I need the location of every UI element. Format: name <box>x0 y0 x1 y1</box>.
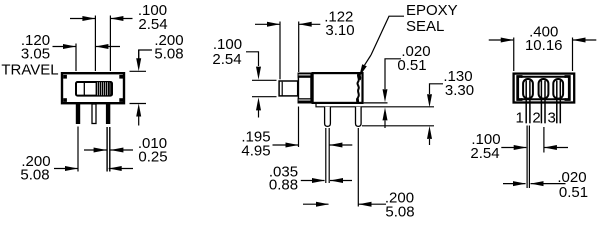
dimension .400 arrows <box>489 38 597 43</box>
knob top edge extension left <box>252 79 277 81</box>
actuator knob side <box>279 81 298 96</box>
terminal oval 3 <box>553 79 563 99</box>
pin 1 left (front) <box>76 104 80 124</box>
inner top wall line <box>521 76 566 78</box>
dimension .130 pin length leader and arrows <box>427 84 443 145</box>
dimension .035 pin thickness arrows <box>301 178 352 183</box>
pin 2 middle (front, outlined) <box>92 104 96 124</box>
svg-text:EPOXY: EPOXY <box>406 2 458 19</box>
svg-text:10.16: 10.16 <box>525 37 563 54</box>
corner square bottom-right <box>119 98 123 102</box>
pin 3 wire through body <box>556 81 558 124</box>
svg-text:5.08: 5.08 <box>154 46 183 63</box>
dimension .010 pin thickness <box>84 148 133 153</box>
svg-text:5.08: 5.08 <box>385 204 414 221</box>
pin tip plane line <box>362 125 434 127</box>
svg-text:2.54: 2.54 <box>470 145 499 162</box>
pin 3 right (front) <box>106 104 110 124</box>
svg-text:3.10: 3.10 <box>325 22 354 39</box>
corner square top-left <box>63 75 67 79</box>
svg-text:1: 1 <box>516 110 524 127</box>
svg-text:TRAVEL: TRAVEL <box>1 62 58 79</box>
extension line body right (.400) <box>572 38 574 72</box>
extension line knob left edge <box>94 16 96 72</box>
extension line pin2 below <box>543 127 545 153</box>
dimension .100 knob leader and arrows <box>246 52 261 118</box>
svg-text:2.54: 2.54 <box>138 16 167 33</box>
knob bottom edge extension left <box>252 96 277 98</box>
epoxy seal leader <box>359 16 404 77</box>
dimension .195 arrows <box>273 143 353 148</box>
extension line body left (.400) <box>513 38 515 72</box>
inner bottom wall line <box>521 98 566 100</box>
seating plane line <box>316 104 434 107</box>
svg-text:SEAL: SEAL <box>406 18 444 35</box>
extension lines pin A below (double) <box>325 128 327 183</box>
pin 1 wire through body <box>525 81 527 124</box>
svg-text:4.95: 4.95 <box>241 143 270 160</box>
switch body front view <box>62 73 124 103</box>
dimension .200 pin spacing side arrows <box>303 202 386 207</box>
pin B side view <box>356 107 362 127</box>
dimension .020 standoff leader and arrows <box>383 59 402 128</box>
svg-text:0.51: 0.51 <box>397 57 426 74</box>
svg-text:2: 2 <box>532 110 540 127</box>
pin 2 wire through body <box>540 81 542 124</box>
svg-text:3: 3 <box>548 110 556 127</box>
svg-text:3.05: 3.05 <box>21 46 50 63</box>
extension line flange face (.122) <box>298 22 300 73</box>
body top edge extension tick right <box>130 70 147 72</box>
pin A side view <box>325 107 331 127</box>
extension line pin1 center below <box>77 127 79 172</box>
terminal oval 1 <box>523 79 533 99</box>
dimension .122 arrows <box>255 22 320 27</box>
body bottom edge extension right <box>364 102 388 104</box>
left end clip <box>518 77 523 100</box>
dimension .020 pin thickness arrows <box>503 181 566 186</box>
svg-text:3.30: 3.30 <box>445 82 474 99</box>
corner square bottom-left <box>63 98 67 102</box>
svg-text:0.25: 0.25 <box>138 149 167 166</box>
body bottom edge extension tick right <box>130 103 147 105</box>
svg-text:5.08: 5.08 <box>20 167 49 184</box>
flange top cap (black) <box>298 73 312 78</box>
dimension .200 pin spacing bottom <box>54 166 133 171</box>
window divider line <box>83 82 85 96</box>
extension line flange face below <box>298 107 300 148</box>
slider window <box>76 82 112 96</box>
right end clip <box>565 77 570 100</box>
dimension .200 body height leader and arrows <box>136 50 152 126</box>
extension lines pin1 below (double) <box>526 126 528 189</box>
mounting flange <box>298 73 311 102</box>
dimension travel arrows <box>53 44 121 49</box>
extension line pin B below <box>357 128 359 207</box>
flange bottom cap (black) <box>298 98 312 103</box>
svg-text:0.88: 0.88 <box>269 177 298 194</box>
dimension .100 pin pitch arrows <box>501 145 568 150</box>
switch body side view <box>313 73 363 103</box>
extension line knob right edge <box>109 16 111 72</box>
corner square top-right <box>119 75 123 79</box>
switch body end view <box>514 74 575 103</box>
dimension .100 top left part <box>70 16 133 21</box>
svg-text:2.54: 2.54 <box>212 51 241 68</box>
extension line knob tip (.122) <box>279 22 281 80</box>
svg-text:0.51: 0.51 <box>559 184 588 201</box>
knob face line <box>281 82 283 96</box>
epoxy seal squiggle <box>357 74 358 103</box>
slider knob (hatched) <box>96 82 110 96</box>
terminal oval 2 <box>539 79 549 99</box>
extension line knob travel left <box>75 44 77 72</box>
extension lines pin3 edges below (double) <box>106 127 108 172</box>
